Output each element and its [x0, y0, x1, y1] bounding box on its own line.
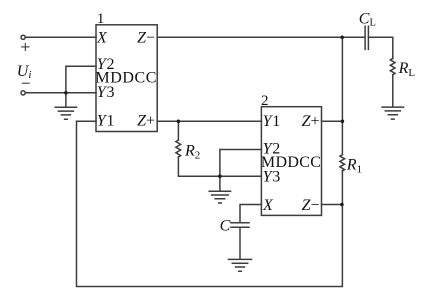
- junction node Z+1 / R2: [177, 120, 181, 124]
- terminal + circle: [21, 35, 25, 39]
- junction node Z+2 / R1: [341, 120, 345, 124]
- wire right vertical top segment (node Z-1 to Z+2): [341, 37, 343, 121]
- resistor R1: [340, 155, 345, 171]
- svg-text:Z−: Z−: [137, 30, 155, 47]
- wire R2 top lead from Z+1 node: [177, 121, 179, 140]
- svg-text:Z+: Z+: [302, 113, 320, 130]
- wire Y2 of block 1 step down to input minus rail: [66, 66, 96, 93]
- svg-text:R2: R2: [184, 142, 200, 161]
- junction node input minus / ground: [64, 91, 68, 95]
- wire X of block 2 to capacitor C: [240, 205, 261, 223]
- MDDCC block 1 outline: [96, 25, 157, 132]
- wire right vertical down and bottom rail to left vertical: [77, 121, 343, 286]
- wire input + to X pin of block 1: [25, 36, 96, 38]
- wire Z- of block 2 to right vertical: [322, 204, 343, 206]
- wire Z+ of block 1 to Y1 of block 2: [157, 120, 261, 122]
- svg-text:2: 2: [261, 93, 269, 109]
- wire Y2 of block 2 step down to ground node: [220, 150, 262, 177]
- ground at input rail: [55, 107, 76, 119]
- plus polarity mark: [22, 43, 29, 50]
- wire ground stem at Y3 node of block 2: [219, 176, 221, 191]
- wire Z- of block 1 to capacitor CL: [157, 36, 365, 38]
- svg-text:Y3: Y3: [263, 168, 281, 185]
- wire ground stem at input rail: [65, 93, 67, 107]
- junction node Y3-2 / ground: [218, 174, 222, 178]
- wire R2 bottom to Y3 of block 2: [178, 157, 261, 176]
- ground below RL: [382, 107, 403, 119]
- svg-text:Y1: Y1: [263, 113, 281, 130]
- wire CL to RL top: [368, 37, 392, 58]
- minus polarity mark: [22, 82, 29, 84]
- svg-text:R1: R1: [346, 157, 362, 176]
- wire R1 bottom to Z- node: [341, 171, 343, 205]
- wire Z+ of block 2 to right vertical: [322, 120, 343, 122]
- svg-text:RL: RL: [398, 60, 416, 79]
- capacitor C plates: [231, 223, 249, 228]
- svg-text:Z+: Z+: [137, 113, 155, 130]
- resistor R2: [176, 140, 181, 157]
- svg-text:Y3: Y3: [97, 84, 115, 101]
- svg-text:X: X: [96, 30, 108, 47]
- wire right vertical to R1 top: [341, 121, 343, 154]
- junction node Z-1 / CL: [340, 36, 344, 40]
- wire capacitor C to ground: [239, 227, 241, 259]
- svg-text:C: C: [220, 218, 231, 235]
- svg-text:1: 1: [97, 11, 105, 27]
- ground below capacitor C: [229, 259, 252, 271]
- MDDCC block 2 outline: [261, 107, 321, 216]
- capacitor CL plates: [365, 26, 368, 49]
- svg-text:CL: CL: [359, 10, 376, 28]
- svg-text:Z−: Z−: [302, 197, 320, 214]
- svg-text:Y1: Y1: [97, 113, 115, 130]
- terminal - circle: [21, 91, 25, 95]
- wire input - to Y3 pin of block 1: [25, 92, 96, 94]
- svg-text:Ui: Ui: [17, 63, 32, 81]
- svg-text:X: X: [262, 197, 274, 214]
- junction node Z-2 / R1: [340, 203, 344, 207]
- wire RL bottom to ground: [392, 75, 394, 107]
- resistor RL: [390, 58, 395, 74]
- ground below Y3 node of block 2: [209, 191, 230, 203]
